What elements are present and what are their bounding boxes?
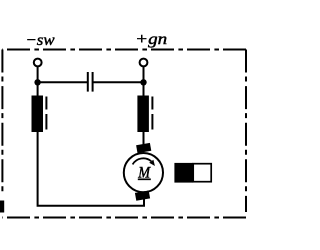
choke L1 core (dashed line) — [45, 97, 47, 130]
motor M1 lower brush — [135, 190, 150, 200]
legend icon black half — [174, 163, 193, 183]
motor M1 upper brush — [136, 143, 151, 153]
motor letter M underline — [138, 178, 151, 180]
junction dot at left terminal node — [34, 79, 40, 85]
capacitor C1 (suppression capacitor plates) — [88, 72, 93, 92]
svg-text:−sw: −sw — [25, 32, 55, 49]
motor M1 body (circle) — [124, 153, 163, 192]
motor rotation arrowhead — [149, 160, 155, 166]
wire: left choke down, along bottom, up to motor lower brush — [38, 132, 144, 206]
motor rotation arrow (arc) — [133, 158, 152, 164]
terminal +gn (open circle) — [140, 59, 148, 67]
svg-text:+gn: +gn — [135, 31, 167, 48]
housing boundary (dash-dot frame) — [2, 50, 246, 218]
wire: left terminal stem down through junction to choke — [37, 67, 39, 96]
wire: left junction to capacitor left plate — [38, 81, 87, 83]
choke L2 core (dashed line) — [151, 97, 153, 130]
wire: capacitor right plate to right junction — [93, 81, 143, 83]
junction dot at right terminal node — [140, 79, 146, 85]
choke L1 (left suppression choke, solid body) — [32, 96, 44, 133]
wire: right choke down to motor upper brush — [143, 132, 145, 147]
left border thick end dash — [0, 201, 4, 213]
choke L2 (right suppression choke, solid body) — [137, 96, 149, 133]
wire: right terminal stem down through junction to choke — [143, 67, 145, 96]
legend icon white half with outline — [193, 164, 211, 182]
terminal -sw (open circle) — [34, 59, 42, 67]
